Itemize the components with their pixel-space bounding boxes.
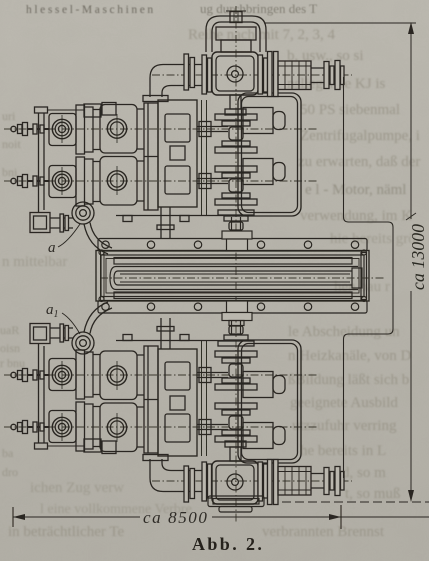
- svg-text:dro: dro: [2, 465, 18, 479]
- top bolt band: [98, 239, 367, 252]
- central tube: [110, 267, 362, 290]
- shaft flange top: [222, 217, 252, 251]
- upper tube bar: [114, 258, 352, 265]
- engine unit 1 bracket: [206, 12, 266, 53]
- right end plate: [361, 253, 367, 300]
- top bolts: [102, 241, 359, 248]
- body outer: [96, 251, 369, 302]
- svg-text:e l - Motor, näml: e l - Motor, näml: [305, 182, 406, 198]
- dimension: vertical ca 13000 line: [406, 22, 416, 502]
- svg-text:utzzufuhr verring: utzzufuhr verring: [292, 418, 397, 434]
- svg-text:hlessel-Maschinen: hlessel-Maschinen: [26, 4, 156, 16]
- svg-text:bni: bni: [2, 165, 18, 179]
- svg-text:Zentrifugalpumpe, i: Zentrifugalpumpe, i: [300, 128, 420, 144]
- body inner: [101, 255, 364, 297]
- faint page text top: [26, 1, 317, 16]
- corner bolts: [99, 250, 367, 302]
- svg-text:n mittelbar: n mittelbar: [2, 254, 67, 270]
- svg-text:noit: noit: [2, 137, 21, 151]
- svg-text:d, so m: d, so m: [342, 465, 386, 481]
- bottom bolts: [102, 303, 359, 310]
- svg-text:50 PS siebenmal: 50 PS siebenmal: [300, 102, 400, 118]
- svg-text:ca 8500: ca 8500: [143, 508, 209, 527]
- bottom cross tray: [208, 496, 264, 512]
- svg-text:ug durchbringen des T: ug durchbringen des T: [200, 1, 317, 16]
- left end lines: [101, 251, 105, 301]
- svg-text:geeignete Ausbild: geeignete Ausbild: [290, 395, 398, 411]
- engine unit 2 (bottom, mirrored): [4, 302, 352, 505]
- svg-text:n Heizkanäle, von D: n Heizkanäle, von D: [288, 348, 411, 364]
- main vertical shaft centerline: [235, 6, 237, 524]
- lower tube bar: [114, 292, 352, 299]
- svg-text:t, so muß: t, so muß: [345, 486, 400, 502]
- svg-text:a: a: [48, 240, 56, 256]
- svg-text:Reihe nach mit 7, 2, 3, 4: Reihe nach mit 7, 2, 3, 4: [188, 27, 336, 43]
- dimension: bottom ca 8500 line: [13, 505, 429, 529]
- label a1: [46, 302, 80, 334]
- engine unit 1 (top): [4, 52, 352, 255]
- label a: [48, 224, 80, 256]
- svg-text:ßBildung läßt sich b: ßBildung läßt sich b: [288, 372, 409, 388]
- svg-text:uri: uri: [2, 109, 16, 123]
- tube centerline: [100, 277, 386, 279]
- svg-text:ca 13000: ca 13000: [408, 224, 428, 290]
- svg-text:zu erwarten, daß der: zu erwarten, daß der: [298, 154, 420, 170]
- svg-text:Abb. 2.: Abb. 2.: [192, 534, 264, 554]
- svg-text:in beträchtlicher Te: in beträchtlicher Te: [8, 524, 124, 540]
- svg-text:uaR: uaR: [0, 323, 19, 337]
- svg-text:ichen Zug verw: ichen Zug verw: [30, 480, 124, 496]
- condenser middle block: [96, 217, 386, 334]
- dimension: bottom reference dashed line: [282, 501, 429, 503]
- svg-text:verbrannten Brennst: verbrannten Brennst: [262, 524, 385, 540]
- svg-text:ba: ba: [2, 446, 14, 460]
- top axis tick: [226, 10, 246, 12]
- bottom bolt band: [98, 301, 367, 314]
- svg-text:oisn: oisn: [0, 341, 20, 355]
- bypass pipe right side: [344, 77, 394, 478]
- shaft flange bottom: [222, 301, 252, 334]
- dimension: top extension line: [264, 22, 416, 24]
- svg-text:r bnu: r bnu: [0, 356, 25, 370]
